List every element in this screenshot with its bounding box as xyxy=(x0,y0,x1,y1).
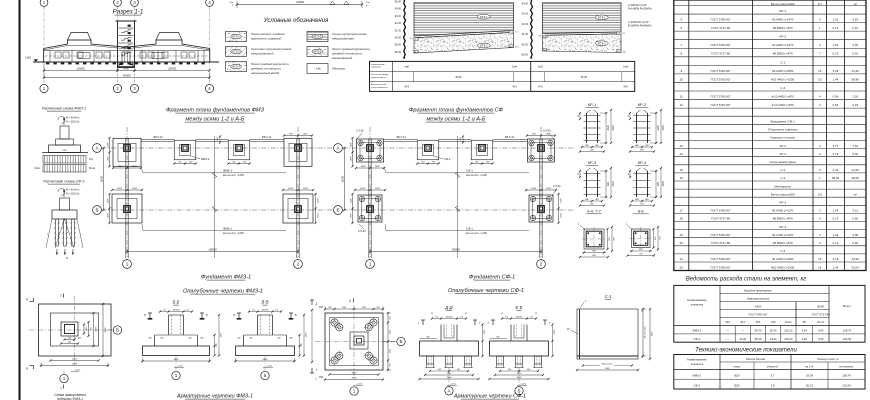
svg-text:3,08: 3,08 xyxy=(852,233,858,237)
legend item 2 loam symbol xyxy=(226,47,247,57)
svg-text:16: 16 xyxy=(818,265,822,269)
svg-text:-1,200: -1,200 xyxy=(266,366,273,368)
svg-text:Опалубочные чертежи ФМЗ-1: Опалубочные чертежи ФМЗ-1 xyxy=(183,289,263,295)
svg-text:#2 А400 L=1470: #2 А400 L=1470 xyxy=(772,43,794,47)
pile leader label C6-30 plan2 B1 xyxy=(359,224,364,229)
svg-text:Фундамент СФ-1: Фундамент СФ-1 xyxy=(771,119,796,123)
section В-В column xyxy=(257,315,259,335)
svg-text:Ведомость расхода стали на: Ведомость расхода стали на элемент, кг xyxy=(686,277,807,283)
svg-text:крупности, влажный: крупности, влажный xyxy=(251,37,281,41)
svg-text:3,12: 3,12 xyxy=(852,209,858,213)
svg-text:1470: 1470 xyxy=(662,125,665,131)
svg-text:Глина тугопластичная,: Глина тугопластичная, xyxy=(332,32,367,36)
svg-text:Расход бетона: Расход бетона xyxy=(746,357,765,361)
svg-text:С-1: С-1 xyxy=(605,294,612,299)
svg-text:Фрагмент плана фундаментов: Фрагмент плана фундаментов ФМЗ xyxy=(166,108,265,114)
svg-text:3,64: 3,64 xyxy=(818,329,824,333)
svg-text:0,91: 0,91 xyxy=(852,52,858,56)
section 8-8 squares xyxy=(632,229,651,248)
axis circle 2 bottom xyxy=(537,260,546,269)
svg-text:—: — xyxy=(726,330,729,333)
svg-text:КР-3: КР-3 xyxy=(588,160,597,165)
svg-text:44,64: 44,64 xyxy=(770,337,777,341)
svg-text:#2 А400 L=2630: #2 А400 L=2630 xyxy=(772,69,794,73)
intermediate footing dimension below xyxy=(417,163,438,165)
svg-text:между осями 1-2 и А-Б: между осями 1-2 и А-Б xyxy=(426,117,485,123)
formwork FMZ plan crosshairs xyxy=(29,329,119,331)
svg-text:ГОСТ 6727-80: ГОСТ 6727-80 xyxy=(812,312,831,316)
plan grid axis 2 vertical xyxy=(297,127,299,260)
svg-text:С 6-30: С 6-30 xyxy=(356,130,364,133)
svg-text:1: 1 xyxy=(126,262,129,267)
section 8-8 rebar dots xyxy=(635,232,637,234)
right roof monitor xyxy=(156,33,182,41)
svg-text:ИГЭ-1: ИГЭ-1 xyxy=(480,15,488,19)
svg-text:Скв4: Скв4 xyxy=(512,67,518,69)
borehole table xyxy=(370,61,635,91)
svg-text:10: 10 xyxy=(680,77,684,81)
svg-text:Материалы: Материалы xyxy=(774,184,791,188)
svg-text:19: 19 xyxy=(680,233,684,237)
foundation beam lines along axis 2 xyxy=(539,139,541,259)
legend item 1 sand fine symbol xyxy=(226,32,247,42)
load annotation SF xyxy=(58,188,65,195)
svg-text:С 6-30: С 6-30 xyxy=(543,130,551,133)
svg-text:КР-4: КР-4 xyxy=(779,225,786,229)
pile section Д-Д column cup xyxy=(440,325,442,342)
svg-text:92.00: 92.00 xyxy=(522,23,529,26)
svg-text:1400: 1400 xyxy=(361,165,367,168)
svg-text:250/250: 250/250 xyxy=(261,310,270,312)
section Б-Б axis circle xyxy=(172,371,180,379)
cage КР-4 left top dimension xyxy=(629,171,631,177)
svg-text:Фундамент ФМЗ-1: Фундамент ФМЗ-1 xyxy=(201,275,251,281)
svg-text:ГОСТ 6727-80: ГОСТ 6727-80 xyxy=(711,26,730,30)
svg-text:-1,200: -1,200 xyxy=(450,384,457,386)
svg-text:0,13: 0,13 xyxy=(833,52,839,56)
svg-text:ИГЭ-4: ИГЭ-4 xyxy=(232,65,240,69)
svg-text:18000: 18000 xyxy=(77,66,85,70)
svg-text:250/250: 250/250 xyxy=(515,317,524,319)
svg-text:5,60: 5,60 xyxy=(818,337,824,341)
svg-text:1: 1 xyxy=(63,376,66,381)
svg-text:4,32: 4,32 xyxy=(833,168,839,172)
svg-text:2400: 2400 xyxy=(95,326,98,333)
svg-text:1400: 1400 xyxy=(375,165,381,168)
svg-text:1500: 1500 xyxy=(350,213,352,219)
mesh C-1 leader 10 xyxy=(571,330,578,334)
svg-text:между осями 1-2 и А-Б: между осями 1-2 и А-Б xyxy=(185,117,244,123)
footing B2 xyxy=(283,194,313,223)
svg-text:м³: м³ xyxy=(854,2,857,6)
axis circle B left xyxy=(93,206,102,215)
svg-text:-1,200: -1,200 xyxy=(177,366,184,368)
svg-text:СФ-2: СФ-2 xyxy=(444,157,451,161)
svg-text:18000: 18000 xyxy=(451,247,460,251)
svg-text:средней плотности,: средней плотности, xyxy=(332,52,363,56)
section 8-8 leader xyxy=(628,225,633,230)
section В-В step2 xyxy=(244,334,287,336)
svg-text:на элемент: на элемент xyxy=(839,365,854,368)
footing B2 dimension right chain xyxy=(558,194,560,223)
specification table row lines xyxy=(674,5,866,7)
svg-text:Арматурные чертежи ФМЗ-1: Арматурные чертежи ФМЗ-1 xyxy=(176,394,253,400)
leader label row B long line xyxy=(143,230,286,232)
intermediate footing 2 xyxy=(228,140,250,160)
section Б-Б step2 xyxy=(155,334,198,336)
axis circle B right of SF plan xyxy=(383,341,396,343)
footing B2 dimension above xyxy=(526,189,556,191)
svg-text:Наименование: Наименование xyxy=(687,298,707,302)
interior door rects xyxy=(78,53,90,59)
svg-text:1500: 1500 xyxy=(288,188,294,190)
svg-text:ФМЗ-2: ФМЗ-2 xyxy=(201,157,210,161)
footing B1 dimension left chain xyxy=(352,194,354,223)
svg-text:элемента: элемента xyxy=(691,362,704,366)
svg-text:4500: 4500 xyxy=(123,66,129,70)
V-V right vertical dim xyxy=(311,310,313,362)
svg-text:#16: #16 xyxy=(725,320,730,324)
svg-text:ГОСТ 5781-82*: ГОСТ 5781-82* xyxy=(711,43,732,47)
svg-text:3000: 3000 xyxy=(72,363,78,365)
svg-text:насыщенный водой: насыщенный водой xyxy=(251,71,280,75)
svg-text:* обс: * обс xyxy=(314,67,321,71)
plan grid axis 1 vertical xyxy=(369,127,371,260)
axis 2 top circle xyxy=(114,0,122,6)
svg-text:С-3: С-3 xyxy=(780,176,785,180)
foundation beam lines along axis 1 xyxy=(368,139,370,259)
plan bottom dimension 18000 xyxy=(370,251,541,253)
cage КР-1 right dimension xyxy=(605,113,607,143)
svg-text:Ø5 шаг=200: Ø5 шаг=200 xyxy=(644,326,646,339)
cage КР-4 bottom dimension xyxy=(632,200,652,202)
load annotation FMZ xyxy=(58,116,65,123)
svg-text:В500: В500 xyxy=(817,304,824,308)
svg-text:все на отм. -1,200: все на отм. -1,200 xyxy=(466,232,487,235)
svg-text:Рср: Рср xyxy=(89,158,94,161)
footing B2 xyxy=(529,195,553,222)
svg-text:91.00: 91.00 xyxy=(522,33,529,36)
svg-text:объем м³: объем м³ xyxy=(767,364,779,368)
foundation beam lines along axis 1 xyxy=(125,139,127,259)
svg-text:маловлажный: маловлажный xyxy=(332,56,352,60)
cage КР-3 right dimension xyxy=(605,171,607,197)
legend item 6 backfill symbol xyxy=(307,64,328,74)
svg-text:5: 5 xyxy=(264,373,267,378)
svg-text:18000: 18000 xyxy=(168,66,176,70)
svg-text:3,9: 3,9 xyxy=(771,383,775,387)
plan grid axis 2 vertical xyxy=(540,127,542,260)
svg-text:Сетки арматурные: Сетки арматурные xyxy=(769,160,796,164)
svg-text:#5 В500 L=870: #5 В500 L=870 xyxy=(773,241,793,245)
foundation beam row A segment 2 xyxy=(439,139,472,141)
svg-text:2,18: 2,18 xyxy=(852,103,858,107)
formwork SF plan inner offset square xyxy=(330,318,379,366)
svg-text:105,10: 105,10 xyxy=(784,329,793,333)
svg-text:-1,200: -1,200 xyxy=(74,370,81,372)
svg-text:элемента: элемента xyxy=(691,303,704,307)
plan grid axis A horizontal xyxy=(343,147,576,149)
specification table frame xyxy=(674,0,866,271)
formwork FMZ plan column square xyxy=(61,322,78,336)
svg-text:Сборочные единицы: Сборочные единицы xyxy=(768,128,799,132)
foundation beam row A segment 3 xyxy=(493,139,527,141)
svg-text:СФ-1: СФ-1 xyxy=(466,169,473,173)
svg-text:54,70: 54,70 xyxy=(755,329,762,333)
svg-text:94,6: 94,6 xyxy=(405,87,410,89)
pile section Д-Д side dim xyxy=(420,338,438,340)
svg-text:—: — xyxy=(726,338,729,341)
svg-text:3000: 3000 xyxy=(105,327,107,333)
svg-text:ИГЭ-5: ИГЭ-5 xyxy=(314,50,322,54)
axis circle B left xyxy=(334,206,343,215)
footing A2 top dimension chain xyxy=(527,135,555,137)
svg-text:0,13: 0,13 xyxy=(833,241,839,245)
svg-text:ФМЗ-1: ФМЗ-1 xyxy=(693,329,702,333)
foundation footing marks under ground line xyxy=(46,63,49,65)
pile section Д-Д piles xyxy=(427,356,434,364)
section 4-4, 7-7 right dim xyxy=(607,229,609,249)
footing A1 dimension below xyxy=(356,167,384,169)
formwork FMZ plan right dim chain xyxy=(93,313,95,346)
svg-text:1,04: 1,04 xyxy=(833,209,839,213)
svg-text:Каркасы плоские: Каркасы плоские xyxy=(770,136,795,140)
svg-text:2,73: 2,73 xyxy=(833,152,839,156)
svg-text:ГОСТ 5781-82*: ГОСТ 5781-82* xyxy=(711,233,732,237)
svg-text:КР-2: КР-2 xyxy=(638,102,647,107)
svg-text:Итого: Итого xyxy=(817,320,825,324)
svg-text:0,13: 0,13 xyxy=(833,26,839,30)
formwork SF plan center column xyxy=(350,332,368,349)
svg-text:Фундамент СФ-1: Фундамент СФ-1 xyxy=(469,275,515,281)
svg-text:Абсолютная отм.: Абсолютная отм. xyxy=(371,83,387,86)
svg-text:выработки: выработки xyxy=(371,67,381,69)
ground line xyxy=(33,61,219,63)
svg-text:Расстояние между: Расстояние между xyxy=(371,74,388,76)
mesh C-1 right dim chain xyxy=(642,309,644,356)
svg-text:3,64: 3,64 xyxy=(802,329,808,333)
svg-text:1500: 1500 xyxy=(531,188,537,190)
pile cap elevation SF xyxy=(60,198,70,210)
legend item 5 sand symbol xyxy=(307,47,328,57)
svg-text:С-2: С-2 xyxy=(780,168,785,172)
svg-text:1: 1 xyxy=(353,389,356,394)
pile section Е-Е bottom dims xyxy=(500,370,538,372)
pile section Е-Е slab xyxy=(490,341,549,356)
svg-text:17: 17 xyxy=(680,209,684,213)
svg-text:Изделия арматурные: Изделия арматурные xyxy=(744,289,772,293)
pile section Е-Е column cup xyxy=(510,325,512,342)
svg-text:ГОСТ 5781-82*: ГОСТ 5781-82* xyxy=(711,18,732,22)
axis A-B span dimension 6000 xyxy=(344,148,346,210)
svg-text:2400: 2400 xyxy=(604,367,610,370)
svg-text:94.00: 94.00 xyxy=(395,8,402,11)
svg-text:1500: 1500 xyxy=(117,188,123,190)
svg-text:41,60: 41,60 xyxy=(852,69,860,73)
svg-text:0.000: 0.000 xyxy=(25,57,32,60)
svg-text:ГОСТ 6727-80: ГОСТ 6727-80 xyxy=(711,52,730,56)
svg-text:КР-4: КР-4 xyxy=(780,152,787,156)
axis circle 1 below plan xyxy=(60,374,68,382)
formwork FMZ plan bottom dim chain xyxy=(51,360,99,362)
svg-text:15: 15 xyxy=(680,168,684,172)
geology break line 1 xyxy=(404,0,406,58)
svg-text:КР-4: КР-4 xyxy=(638,160,647,165)
svg-text:Ø5шаг=200: Ø5шаг=200 xyxy=(602,364,614,366)
svg-text:ФБ 6-12: ФБ 6-12 xyxy=(153,136,163,139)
svg-text:14: 14 xyxy=(680,152,684,156)
svg-text:88.00: 88.00 xyxy=(395,51,402,54)
svg-text:С-1: С-1 xyxy=(780,60,785,64)
svg-text:M = 90 кН·м: M = 90 кН·м xyxy=(66,189,80,192)
footing B1 dimension above xyxy=(112,189,142,191)
cage КР-3 ties xyxy=(584,173,601,175)
pile cap spread lines xyxy=(46,219,52,248)
svg-text:68,00: 68,00 xyxy=(852,176,860,180)
svg-text:#2 А400 L=1170: #2 А400 L=1170 xyxy=(772,233,793,237)
svg-text:м³: м³ xyxy=(854,192,857,196)
svg-text:Расчетная схема ФМЗ-1: Расчетная схема ФМЗ-1 xyxy=(42,107,86,111)
cage КР-2 ties xyxy=(634,115,651,117)
svg-text:40500: 40500 xyxy=(123,73,131,77)
cage КР-4 top hooks xyxy=(637,168,641,171)
axis 4 grid line xyxy=(209,7,211,85)
section Б-Б slab xyxy=(143,346,210,356)
svg-text:15000: 15000 xyxy=(296,0,304,4)
leader label row A long line xyxy=(386,172,529,174)
cage КР-1 bottom dimension xyxy=(582,146,602,148)
svg-text:50,08: 50,08 xyxy=(581,76,588,79)
cage КР-1 left top dimension xyxy=(579,113,581,119)
tech table vertical lines xyxy=(719,355,721,390)
svg-text:94.00: 94.00 xyxy=(522,3,529,6)
svg-text:#12: #12 xyxy=(756,320,761,324)
footing B2 dimension right chain xyxy=(315,194,317,223)
axis 2 bottom circle xyxy=(113,84,121,92)
svg-text:Арматура класса: Арматура класса xyxy=(747,297,770,301)
wall band window blocks xyxy=(55,52,61,58)
section Б-Б column xyxy=(168,315,170,335)
svg-text:Итого: Итого xyxy=(785,320,793,324)
svg-text:В20: В20 xyxy=(735,383,740,387)
leader label intermediate footing xyxy=(191,156,200,159)
svg-text:#14: #14 xyxy=(741,320,746,324)
axis 3 grid line xyxy=(134,7,136,85)
svg-text:ФБ 6-12: ФБ 6-12 xyxy=(505,136,515,139)
formwork SF plan top dim chain xyxy=(325,308,383,310)
footing A1 dimension left chain xyxy=(352,138,354,166)
axis 4 bottom circle xyxy=(205,84,213,92)
axis circle 1 bottom xyxy=(366,260,375,269)
steel table vertical lines xyxy=(719,285,721,342)
svg-text:Опалубочные чертежи СФ-1: Опалубочные чертежи СФ-1 xyxy=(448,288,524,294)
plan grid axis B horizontal xyxy=(102,209,333,211)
svg-text:Бетон класса В20: Бетон класса В20 xyxy=(771,192,795,196)
svg-text:20: 20 xyxy=(818,77,822,81)
svg-text:91.00: 91.00 xyxy=(395,29,402,32)
svg-text:25: 25 xyxy=(430,313,433,315)
interior dashed floor line xyxy=(45,55,208,57)
svg-text:0,13: 0,13 xyxy=(833,217,839,221)
svg-text:Б: Б xyxy=(336,208,339,213)
section 8-8 crosshair xyxy=(630,237,653,239)
svg-text:Песок мелкий, средней: Песок мелкий, средней xyxy=(251,32,285,36)
section Б-Б right dim chain xyxy=(214,335,216,356)
section dimension line row 1 xyxy=(44,70,118,72)
svg-text:90.00: 90.00 xyxy=(522,43,529,46)
svg-text:16: 16 xyxy=(818,257,822,261)
svg-text:-1,200: -1,200 xyxy=(356,384,363,386)
svg-text:1,04: 1,04 xyxy=(833,233,839,237)
svg-text:В20: В20 xyxy=(735,374,740,378)
svg-text:1400: 1400 xyxy=(132,165,138,168)
svg-text:#5 В500 L=870: #5 В500 L=870 xyxy=(773,217,793,221)
svg-text:0,65: 0,65 xyxy=(852,241,858,245)
svg-text:3,9: 3,9 xyxy=(818,192,822,196)
grade arrow symbol left xyxy=(34,59,39,62)
section 4-4, 7-7 squares xyxy=(584,229,604,249)
svg-text:45: 45 xyxy=(641,357,643,359)
svg-text:3,7: 3,7 xyxy=(818,2,822,6)
section 4-4, 7-7 rebar dots xyxy=(587,232,589,234)
svg-text:12: 12 xyxy=(680,103,684,107)
svg-text:Обсыпка: Обсыпка xyxy=(332,67,345,71)
svg-text:0,54: 0,54 xyxy=(833,94,839,98)
svg-text:1400: 1400 xyxy=(118,165,124,168)
pile leader label C6-30 plan2 B2 xyxy=(552,189,557,197)
svg-text:ГОСТ 5781-82*: ГОСТ 5781-82* xyxy=(711,209,732,213)
svg-text:M = 90 кН·м: M = 90 кН·м xyxy=(66,117,80,120)
svg-text:ФБ 6-12: ФБ 6-12 xyxy=(396,136,406,139)
tower door opening xyxy=(122,52,130,62)
cage КР-3 left top dimension xyxy=(579,171,581,177)
svg-text:Разрез 1-1: Разрез 1-1 xyxy=(113,9,144,16)
svg-text:1500: 1500 xyxy=(132,188,138,190)
svg-text:Суглинок тугопластичный,: Суглинок тугопластичный, xyxy=(251,47,292,51)
leader label intermediate footing xyxy=(434,156,443,159)
cage КР-1 bars xyxy=(586,113,588,143)
mesh C-1 leader 1 xyxy=(580,303,584,309)
svg-text:21: 21 xyxy=(680,257,684,261)
axis 1 grid line xyxy=(43,7,45,85)
svg-text:5,46: 5,46 xyxy=(852,152,858,156)
legend item 4 clay symbol xyxy=(307,32,328,42)
piles SF xyxy=(56,219,59,246)
soil pressure diagram Rmax xyxy=(43,165,86,173)
svg-text:#2 А400 L=1170: #2 А400 L=1170 xyxy=(772,209,793,213)
plan centre break line xyxy=(457,136,459,258)
axis 3 top circle xyxy=(131,0,139,6)
svg-text:ИГЭ-2: ИГЭ-2 xyxy=(480,44,488,48)
svg-text:1400: 1400 xyxy=(106,142,109,148)
svg-text:1500: 1500 xyxy=(107,198,109,204)
svg-text:КР-2: КР-2 xyxy=(779,35,786,39)
tech table horizontal lines xyxy=(720,361,865,363)
svg-text:ФМЗ-1: ФМЗ-1 xyxy=(693,374,702,378)
svg-text:—: — xyxy=(741,330,744,333)
svg-text:#5 В500 L=870: #5 В500 L=870 xyxy=(773,26,793,30)
footing B1 xyxy=(112,194,142,223)
svg-text:Е-Е: Е-Е xyxy=(516,305,523,310)
svg-text:870: 870 xyxy=(657,181,660,186)
svg-text:ГОСТ 5781-82*: ГОСТ 5781-82* xyxy=(711,94,732,98)
svg-text:1,44: 1,44 xyxy=(833,265,839,269)
cage КР-4 bars xyxy=(636,171,638,197)
svg-text:18000: 18000 xyxy=(208,247,217,251)
svg-text:#10: #10 xyxy=(771,320,776,324)
svg-text:Фрагмент плана фундаментов: Фрагмент плана фундаментов СФ xyxy=(409,108,504,114)
pile section Е-Е axis circle xyxy=(515,387,523,395)
